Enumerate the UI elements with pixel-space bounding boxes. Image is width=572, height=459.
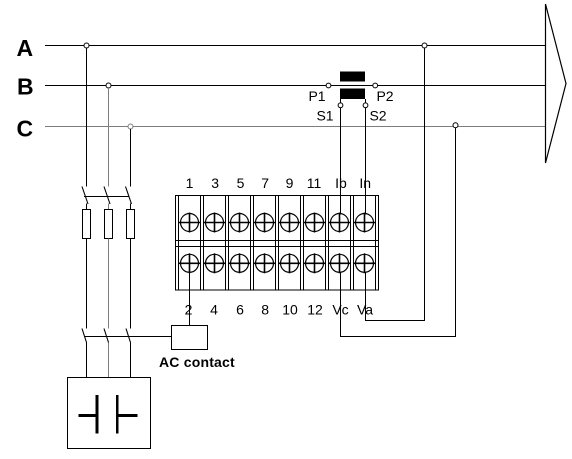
bus line C <box>45 126 545 128</box>
svg-text:10: 10 <box>282 302 298 318</box>
wire CT to S1 <box>340 99 342 103</box>
fuse FU3 <box>127 210 135 239</box>
svg-text:3: 3 <box>211 175 219 191</box>
wire terminal Vc to bus C <box>341 128 456 337</box>
wire switch pole3 to fuse FU3 <box>130 204 132 211</box>
wire phase C drop <box>130 129 132 187</box>
current transformer CT core bar bottom <box>340 89 365 100</box>
wire contactor pole1 to capacitor box <box>86 343 88 378</box>
terminal block TB outline <box>176 196 379 291</box>
wire phase B drop <box>108 88 110 187</box>
CT terminal P2 <box>373 83 378 88</box>
svg-text:P2: P2 <box>376 88 393 104</box>
switch QS pole 1 blade <box>82 187 88 205</box>
contactor KM pole 1 blade <box>82 329 87 343</box>
bus line B <box>45 85 545 87</box>
node C1 <box>128 124 133 129</box>
wire fuse FU2 to contactor pole2 <box>108 239 110 329</box>
svg-text:12: 12 <box>307 302 323 318</box>
terminal screws bottom row <box>181 254 374 272</box>
svg-text:Ib: Ib <box>335 175 347 191</box>
svg-text:S1: S1 <box>316 108 333 124</box>
wire fuse FU3 to contactor pole3 <box>130 239 132 329</box>
capacitor left lead <box>79 414 98 417</box>
bus line A <box>45 45 545 47</box>
svg-text:6: 6 <box>236 302 244 318</box>
terminal screw slots top row <box>179 213 375 233</box>
wire S2 to terminal In <box>365 108 367 215</box>
node A2 <box>422 43 427 48</box>
switch QS pole 2 blade <box>104 187 110 205</box>
svg-text:4: 4 <box>210 302 218 318</box>
CT terminal S1 <box>338 103 343 108</box>
node A1 <box>84 43 89 48</box>
contactor KM pole 3 blade <box>126 329 131 343</box>
svg-text:A: A <box>17 35 34 61</box>
svg-text:5: 5 <box>237 175 245 191</box>
CT terminal S2 <box>363 103 368 108</box>
svg-text:Va: Va <box>357 302 373 318</box>
svg-text:B: B <box>17 74 34 100</box>
terminal screw slots bottom row <box>179 253 375 273</box>
wire switch pole1 to fuse FU1 <box>86 204 88 211</box>
svg-text:S2: S2 <box>369 108 386 124</box>
capacitor bank box <box>68 378 151 449</box>
wire contactor pole2 to capacitor box <box>108 343 110 378</box>
capacitor right plate <box>116 395 119 434</box>
wire fuse FU1 to contactor pole1 <box>86 239 88 329</box>
CT terminal P1 <box>326 83 331 88</box>
svg-text:11: 11 <box>307 175 322 191</box>
svg-text:In: In <box>359 175 371 191</box>
wire phase A drop <box>86 48 88 187</box>
terminal screws top row <box>181 214 374 232</box>
switch QS pole 3 blade <box>126 187 132 205</box>
svg-text:9: 9 <box>286 175 294 191</box>
svg-text:1: 1 <box>186 175 194 191</box>
svg-text:2: 2 <box>185 302 193 318</box>
capacitor left plate <box>96 395 99 434</box>
contactor KM pole 2 blade <box>104 329 109 343</box>
fuse FU2 <box>105 210 113 239</box>
wire contactor pole3 to capacitor box <box>130 343 132 378</box>
node C2 <box>453 123 458 128</box>
wire switch pole2 to fuse FU2 <box>108 204 110 211</box>
fuse FU1 <box>83 210 91 239</box>
wire CT to S2 <box>365 99 367 103</box>
svg-text:Vc: Vc <box>332 302 348 318</box>
svg-text:8: 8 <box>261 302 269 318</box>
svg-text:C: C <box>17 116 34 142</box>
feeder arrow <box>546 4 567 163</box>
svg-text:7: 7 <box>261 175 269 191</box>
node B1 <box>106 83 111 88</box>
wire S1 to terminal Ib <box>340 108 342 215</box>
current transformer CT core bar top <box>340 72 365 82</box>
wire contactor linkage to AC contact coil box <box>84 336 172 338</box>
wire terminal 2 to AC contact box <box>189 272 191 325</box>
svg-text:P1: P1 <box>308 88 325 104</box>
capacitor right lead <box>117 414 137 417</box>
switch QS linkage bar <box>84 196 129 198</box>
wire terminal Va to bus A <box>366 48 425 321</box>
svg-text:AC contact: AC contact <box>159 354 235 370</box>
AC contact coil box <box>172 326 208 350</box>
